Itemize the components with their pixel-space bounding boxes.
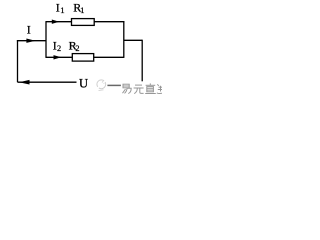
svg-text:I: I (27, 23, 31, 37)
label I (27, 23, 31, 37)
voltage arrow U pointing left (19, 80, 30, 85)
svg-text:U: U (79, 76, 88, 90)
watermark logo (97, 80, 106, 91)
wire: input horizontal wire to left junction (17, 40, 46, 42)
label R1 (73, 0, 84, 15)
background (0, 0, 162, 99)
current arrow I on input wire (26, 39, 35, 43)
watermark char 直 (145, 83, 156, 93)
watermark char 连 (clipped at right edge) (157, 84, 162, 93)
watermark char 易 (123, 84, 132, 93)
svg-text:I: I (56, 0, 60, 14)
resistor R1 (72, 19, 95, 26)
wire: right vertical (clipped by watermark) (141, 40, 143, 82)
svg-text:1: 1 (60, 5, 64, 15)
label I2 (53, 38, 61, 53)
svg-text:2: 2 (75, 44, 79, 53)
wire: top branch right segment (94, 21, 124, 23)
watermark char 元 (134, 85, 144, 94)
svg-text:1: 1 (80, 5, 84, 15)
wire: middle tee toward right rail (124, 39, 142, 41)
node B: right junction vertical merging the branches (123, 21, 125, 58)
svg-text:2: 2 (57, 44, 61, 53)
wire: bottom branch left segment (46, 56, 72, 58)
current arrow I1 on top branch (52, 20, 59, 24)
watermark char 一 (107, 84, 121, 86)
resistor R2 (72, 54, 93, 62)
wire: bottom rail left segment (voltage arrow shaft) (18, 81, 77, 83)
current arrow I2 on bottom branch (54, 55, 62, 59)
wire: bottom branch right segment (94, 56, 124, 58)
node A: left junction vertical splitting into two branches (45, 21, 47, 58)
label U (79, 76, 88, 90)
label I1 (56, 0, 65, 15)
label R2 (69, 38, 80, 53)
wire: top branch left segment (46, 21, 72, 23)
wire: left vertical from input node down to bottom-left corner (17, 40, 19, 82)
